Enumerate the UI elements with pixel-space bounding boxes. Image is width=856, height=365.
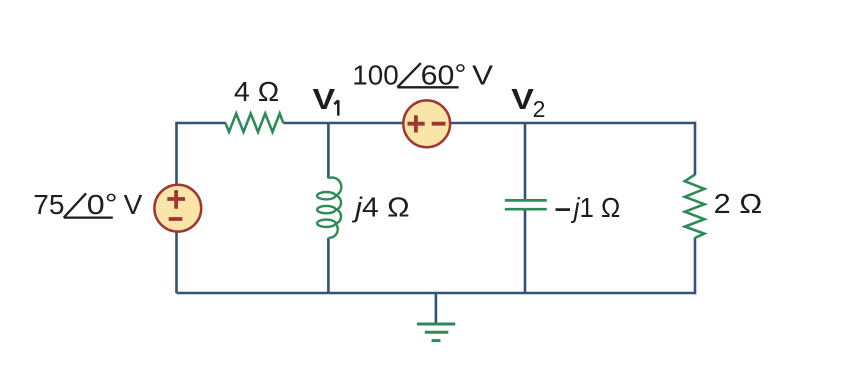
wire left vertical	[175, 122, 178, 293]
resistor 2Ω (right vertical zigzag)	[685, 175, 705, 238]
voltage source Vs1 label 75∠0° V	[33, 188, 142, 220]
wire right vertical bottom	[694, 238, 697, 295]
voltage source Vs2 100∠60° V (top circle, + left, − right)	[403, 100, 450, 147]
svg-text:j1 Ω: j1 Ω	[570, 192, 620, 223]
svg-text:V: V	[124, 189, 143, 220]
svg-text:60°: 60°	[421, 58, 467, 90]
wire node V2 branch upper stub	[524, 123, 527, 199]
resistor 4Ω (top horizontal zigzag)	[225, 114, 283, 132]
wire top-left horizontal	[177, 122, 227, 125]
capacitor −j1Ω (vertical, two plates)	[505, 200, 547, 209]
inductor j4Ω value label	[351, 192, 410, 223]
svg-text:100: 100	[352, 59, 398, 90]
wire node V2 branch lower stub	[524, 210, 527, 293]
wire node V1 branch lower stub	[327, 238, 330, 293]
svg-text:V: V	[313, 84, 336, 116]
svg-text:2 Ω: 2 Ω	[714, 188, 763, 219]
wire ground stub	[435, 293, 438, 323]
inductor j4Ω (vertical coil)	[317, 178, 341, 238]
svg-text:V: V	[472, 59, 493, 90]
wire top middle and right	[283, 122, 695, 125]
svg-text:75: 75	[33, 189, 64, 220]
ground	[417, 324, 455, 341]
svg-text:2: 2	[533, 96, 546, 122]
voltage source Vs2 label 100∠60° V	[352, 58, 493, 90]
voltage source Vs1 75∠0° V (left circle, + top, − bottom)	[154, 185, 201, 232]
wire node V1 branch upper stub	[327, 123, 330, 178]
capacitor −j1Ω value label	[556, 192, 621, 223]
node V1 label	[313, 84, 339, 116]
wire right vertical top	[694, 122, 697, 175]
svg-text:V: V	[511, 84, 534, 116]
svg-text:0°: 0°	[87, 188, 118, 220]
svg-text:4 Ω: 4 Ω	[234, 76, 279, 107]
wire bottom horizontal	[177, 292, 696, 295]
node V2 label	[511, 84, 545, 122]
resistor 2Ω value label	[714, 188, 763, 219]
svg-text:j4 Ω: j4 Ω	[351, 192, 410, 223]
resistor 4Ω value label	[234, 76, 279, 107]
